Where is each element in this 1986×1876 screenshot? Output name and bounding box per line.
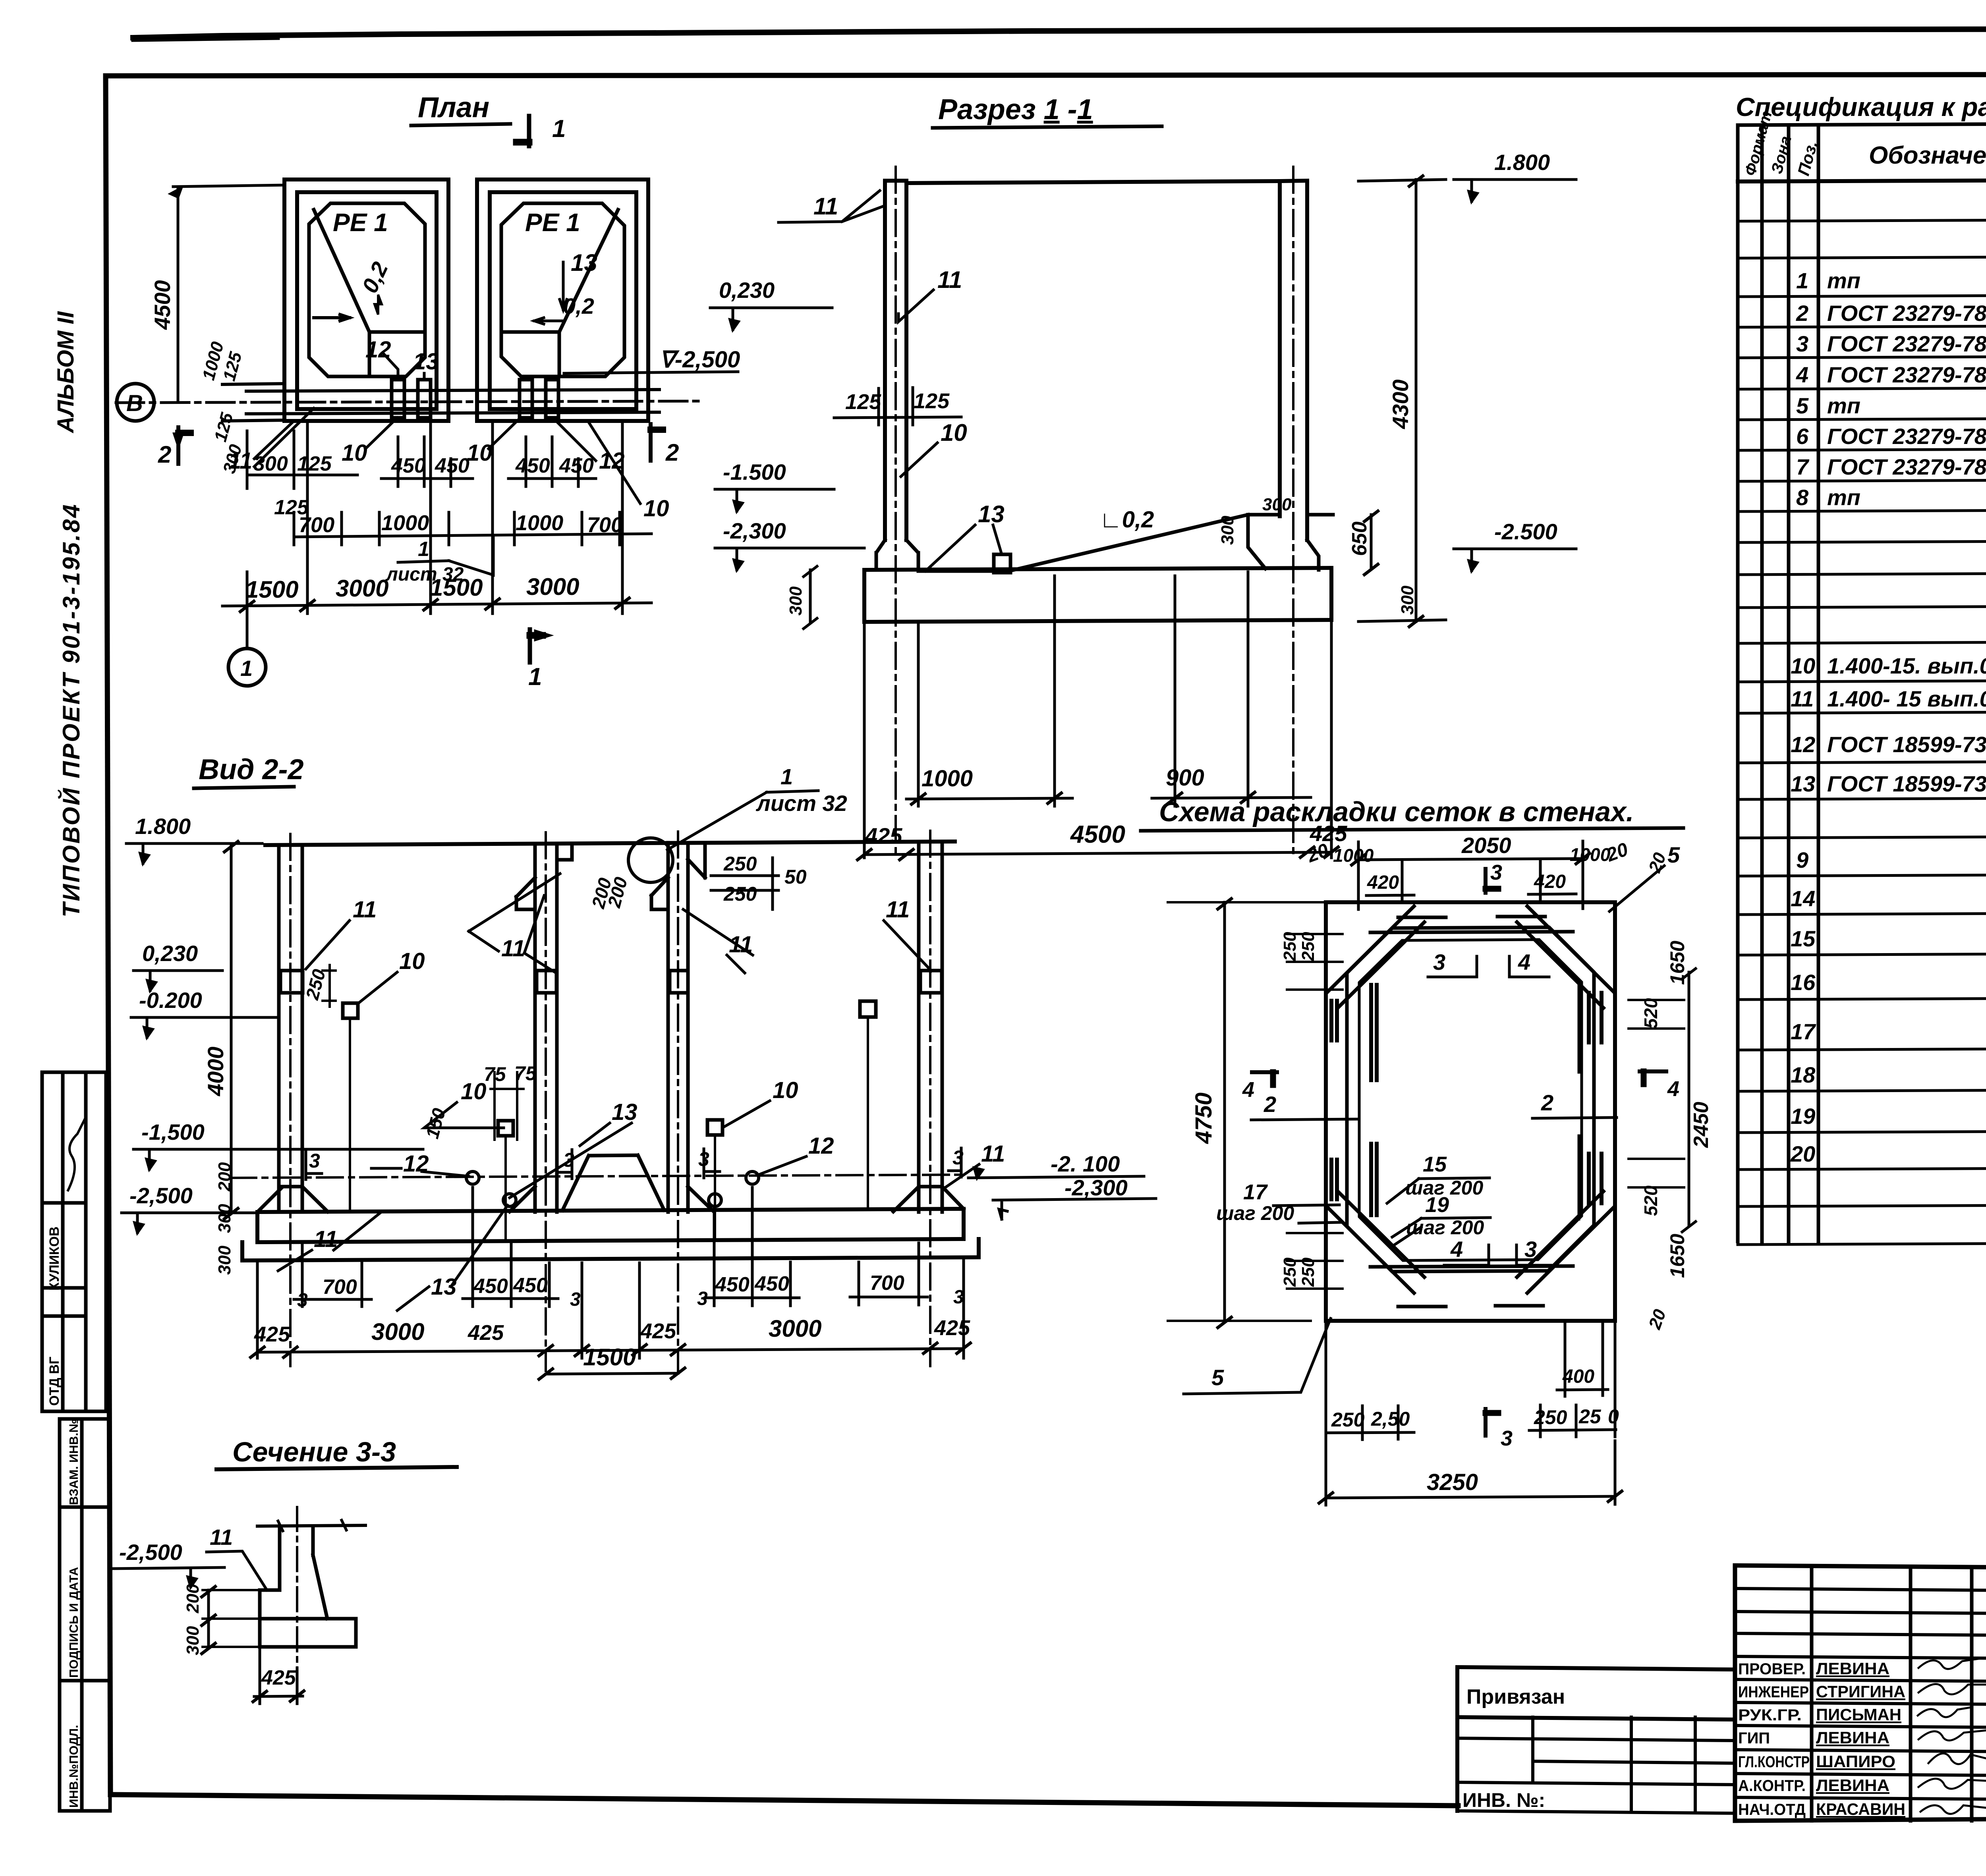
- svg-text:250: 250: [1298, 932, 1318, 961]
- mesh outer rect: [1326, 902, 1615, 1321]
- section 1-1 foundation slab: [864, 568, 1331, 622]
- svg-text:300: 300: [215, 1245, 234, 1275]
- svg-text:13: 13: [571, 249, 597, 276]
- svg-text:-2,500: -2,500: [119, 1540, 182, 1565]
- svg-text:1: 1: [528, 663, 542, 691]
- svg-text:450: 450: [715, 1273, 750, 1296]
- svg-text:10: 10: [467, 440, 493, 466]
- svg-text:425: 425: [640, 1319, 676, 1343]
- item 13 pipe in floor: [994, 554, 1010, 573]
- svg-text:13: 13: [1791, 771, 1815, 796]
- wall W4: [919, 841, 942, 1212]
- svg-text:ГЛ.КОНСТР: ГЛ.КОНСТР: [1738, 1753, 1810, 1771]
- dim 4750 left rotated: [1168, 899, 1323, 1328]
- svg-text:тп: тп: [1827, 485, 1860, 510]
- svg-text:ВЗАМ. ИНВ.№: ВЗАМ. ИНВ.№: [67, 1419, 81, 1505]
- svg-text:2,50: 2,50: [1371, 1408, 1410, 1430]
- svg-text:СТРИГИНА: СТРИГИНА: [1816, 1682, 1905, 1701]
- svg-text:3250: 3250: [1427, 1469, 1478, 1495]
- svg-text:450: 450: [515, 454, 550, 477]
- svg-text:2450: 2450: [1690, 1102, 1713, 1148]
- section mark 2 left: [175, 427, 191, 464]
- specification table group: [1736, 92, 1986, 1245]
- svg-text:700: 700: [587, 513, 623, 537]
- left margin stamp strip lower: [60, 1419, 110, 1811]
- svg-text:125: 125: [914, 389, 950, 413]
- wall W1 axis: [289, 834, 292, 1366]
- section 1-1 top interior line: [906, 181, 1280, 183]
- svg-text:ИНВ.№ПОДЛ.: ИНВ.№ПОДЛ.: [67, 1725, 81, 1808]
- svg-text:9: 9: [1796, 847, 1808, 872]
- svg-text:А.КОНТР.: А.КОНТР.: [1738, 1777, 1806, 1795]
- svg-text:Сечение 3-3: Сечение 3-3: [232, 1436, 396, 1467]
- tank PE1 left: sump rect: [369, 332, 425, 376]
- view 2-2 group: [122, 754, 1156, 1379]
- pipe circles items 12 13: [466, 1172, 759, 1206]
- plan dim row 700/1000/1000/700: [294, 512, 651, 545]
- wall axis: [296, 1507, 298, 1704]
- svg-text:Вид 2-2: Вид 2-2: [199, 754, 304, 786]
- svg-text:200: 200: [183, 1584, 203, 1614]
- dim 3250: [1319, 1441, 1622, 1505]
- title block outer: [1735, 1565, 1986, 1821]
- svg-text:18: 18: [1791, 1062, 1816, 1087]
- svg-text:Разрез 1 -1: Разрез 1 -1: [938, 94, 1093, 125]
- svg-text:4500: 4500: [150, 280, 175, 330]
- svg-text:13: 13: [978, 501, 1005, 527]
- svg-text:12: 12: [808, 1133, 834, 1159]
- svg-text:19: 19: [1791, 1104, 1815, 1129]
- svg-text:3: 3: [1490, 861, 1502, 884]
- dim row 700 450450: [294, 1187, 927, 1307]
- svg-text:17: 17: [1791, 1019, 1816, 1044]
- svg-text:4750: 4750: [1191, 1092, 1217, 1144]
- bottom wall band lines: [222, 384, 659, 421]
- dim 650 rotated: [1364, 511, 1378, 575]
- svg-text:Схема раскладки сеток в стенах: Схема раскладки сеток в стенах.: [1159, 796, 1634, 827]
- svg-text:ГИП: ГИП: [1738, 1729, 1770, 1747]
- mesh bottom bars: [1370, 1266, 1573, 1307]
- svg-text:25: 25: [1578, 1405, 1602, 1428]
- svg-text:125: 125: [845, 390, 881, 414]
- plan dim row 300/125: [247, 431, 357, 488]
- wall W4 axis: [929, 831, 931, 1366]
- mesh inner second line: [1359, 940, 1582, 1260]
- svg-text:420: 420: [1534, 871, 1566, 892]
- svg-text:11: 11: [210, 1525, 233, 1550]
- svg-text:2: 2: [1541, 1090, 1553, 1115]
- svg-text:250: 250: [1331, 1409, 1365, 1431]
- svg-text:РЕ 1: РЕ 1: [525, 208, 580, 237]
- svg-text:-1.500: -1.500: [723, 459, 786, 484]
- svg-text:План: План: [418, 92, 489, 124]
- title block vertical dividers left part: [1812, 1566, 1986, 1821]
- section mark 2 right: [651, 424, 663, 461]
- svg-text:425: 425: [934, 1316, 970, 1340]
- corner chamfer bars BL: [1327, 1191, 1424, 1293]
- svg-text:11: 11: [937, 266, 962, 293]
- svg-text:300: 300: [1398, 585, 1417, 615]
- svg-text:ЛЕВИНА: ЛЕВИНА: [1816, 1659, 1889, 1678]
- section mark 4 left: [1252, 1072, 1277, 1085]
- view 2-2 top edge: [265, 841, 955, 845]
- svg-text:НАЧ.ОТД: НАЧ.ОТД: [1738, 1801, 1806, 1818]
- foundation slab continuous: [242, 1209, 979, 1260]
- svg-text:300: 300: [253, 452, 288, 475]
- svg-text:19: 19: [1425, 1193, 1449, 1217]
- svg-text:1: 1: [780, 764, 793, 789]
- svg-text:10: 10: [399, 948, 425, 974]
- svg-text:4: 4: [1450, 1237, 1463, 1262]
- plan view group: [116, 92, 740, 691]
- svg-text:лист 32: лист 32: [755, 791, 847, 816]
- svg-text:1.400-15. вып.0: 1.400-15. вып.0: [1827, 653, 1986, 678]
- svg-text:ГОСТ 18599-73 *: ГОСТ 18599-73 *: [1827, 732, 1986, 757]
- hanger squares item 10 upper: [343, 1001, 876, 1018]
- svg-text:-2. 100: -2. 100: [1051, 1151, 1120, 1176]
- svg-text:10: 10: [941, 419, 967, 446]
- section 1-1 left wall axis: [894, 167, 897, 858]
- svg-text:14: 14: [1791, 886, 1815, 911]
- svg-text:2: 2: [1263, 1092, 1276, 1117]
- svg-text:1500: 1500: [583, 1344, 636, 1370]
- svg-text:4: 4: [1667, 1077, 1679, 1101]
- wall W2: [535, 843, 557, 1212]
- dim 4300 rotated: [1358, 176, 1446, 627]
- left margin stamp strip upper: [42, 1072, 106, 1411]
- section 1-1 interior floor with slope: [918, 515, 1280, 571]
- svg-text:1: 1: [240, 656, 253, 681]
- horizontal pipe dashdot: [230, 1175, 965, 1178]
- svg-text:4: 4: [1242, 1078, 1254, 1102]
- svg-text:520: 520: [1640, 1185, 1661, 1216]
- svg-text:1000: 1000: [922, 766, 973, 791]
- section 3-3 group: [112, 1436, 457, 1704]
- rotated stamp signature: [68, 1118, 85, 1191]
- dim 425 4500 425: [858, 621, 1338, 860]
- svg-text:∟0,2: ∟0,2: [1099, 507, 1154, 533]
- svg-text:-2,300: -2,300: [723, 518, 786, 543]
- wall cut top line: [257, 1525, 365, 1526]
- svg-text:1650: 1650: [1666, 1234, 1688, 1278]
- svg-text:125: 125: [297, 452, 332, 475]
- svg-text:15: 15: [1791, 926, 1816, 951]
- svg-text:250: 250: [1280, 932, 1300, 961]
- svg-text:1.800: 1.800: [1494, 150, 1550, 175]
- svg-text:8: 8: [1796, 485, 1809, 510]
- svg-text:ТИПОВОЙ ПРОЕКТ 901-3-195.84: ТИПОВОЙ ПРОЕКТ 901-3-195.84: [58, 503, 85, 917]
- mesh side bars left: [1331, 985, 1377, 1215]
- svg-text:450: 450: [473, 1275, 508, 1298]
- svg-text:3: 3: [1796, 331, 1808, 356]
- ledge plates 11 on walls: [280, 971, 942, 993]
- svg-text:10: 10: [461, 1079, 487, 1104]
- svg-text:-2.500: -2.500: [1494, 519, 1557, 544]
- svg-text:ГОСТ 23279-78: ГОСТ 23279-78: [1827, 424, 1986, 449]
- middle upstand trapezoid: [562, 1155, 664, 1210]
- hanger rods: [350, 1017, 868, 1241]
- svg-text:11: 11: [501, 936, 525, 961]
- svg-text:ГОСТ 23279-78: ГОСТ 23279-78: [1827, 301, 1986, 326]
- mid flare W3 right side: [688, 1187, 713, 1211]
- svg-text:450: 450: [559, 454, 594, 477]
- svg-text:3: 3: [570, 1289, 581, 1310]
- svg-text:425: 425: [261, 1666, 296, 1689]
- svg-text:450: 450: [513, 1274, 548, 1297]
- svg-text:1000: 1000: [381, 511, 429, 535]
- svg-text:-1,500: -1,500: [141, 1119, 205, 1145]
- svg-text:250: 250: [723, 883, 757, 905]
- svg-text:300: 300: [786, 586, 806, 616]
- spec table grid: [1738, 122, 1986, 1245]
- section cut mark 1 bottom: [530, 629, 547, 662]
- svg-text:300: 300: [183, 1626, 203, 1655]
- svg-text:3: 3: [1433, 950, 1445, 975]
- tank PE1 left: hopper diagonal: [314, 210, 369, 332]
- svg-text:ЛЕВИНА: ЛЕВИНА: [1816, 1776, 1889, 1795]
- svg-text:5: 5: [1211, 1365, 1224, 1390]
- detail circle 1 list 32: [628, 838, 673, 882]
- tank PE1 right: hopper diagonal: [559, 210, 618, 332]
- stamp signatures: [1918, 1654, 1986, 1814]
- svg-text:5: 5: [1796, 393, 1809, 418]
- mid flare W2 left side: [510, 1187, 535, 1212]
- svg-text:13: 13: [612, 1099, 638, 1125]
- svg-text:3: 3: [1501, 1426, 1513, 1450]
- svg-text:1500: 1500: [245, 576, 298, 603]
- tank PE1 right: chamfered inner opening: [501, 203, 624, 376]
- svg-text:12: 12: [1791, 732, 1815, 757]
- axis circle 1 bottom: [246, 616, 249, 648]
- section 1-1 left wall: [885, 181, 906, 540]
- svg-text:-0.200: -0.200: [139, 988, 202, 1013]
- svg-text:РЕ 1: РЕ 1: [333, 208, 388, 237]
- svg-text:ПИСЬМАН: ПИСЬМАН: [1816, 1705, 1901, 1724]
- svg-text:ГОСТ 18599-73 *: ГОСТ 18599-73 *: [1827, 771, 1986, 796]
- wall W1: [279, 845, 302, 1212]
- svg-text:ОТД ВГ: ОТД ВГ: [47, 1357, 62, 1406]
- svg-text:тп: тп: [1827, 268, 1860, 293]
- svg-text:700: 700: [870, 1272, 904, 1295]
- svg-text:15: 15: [1423, 1152, 1447, 1176]
- section 1-1 group: [710, 94, 1576, 860]
- svg-text:6: 6: [1796, 424, 1809, 449]
- svg-text:300: 300: [1218, 515, 1237, 545]
- section mark 3 top: [1486, 869, 1498, 893]
- svg-text:2: 2: [1796, 301, 1808, 326]
- wall W3 axis: [677, 832, 679, 1371]
- svg-text:4500: 4500: [1070, 821, 1125, 848]
- stamp labels column: [1738, 1660, 1810, 1818]
- svg-text:400: 400: [1562, 1366, 1594, 1387]
- plan title: [411, 92, 510, 125]
- spec table rows text: [1790, 230, 1986, 1241]
- svg-text:425: 425: [865, 823, 902, 848]
- svg-text:3: 3: [1524, 1237, 1537, 1262]
- svg-text:3000: 3000: [526, 573, 579, 600]
- svg-text:4300: 4300: [1388, 379, 1413, 429]
- svg-text:450: 450: [754, 1272, 789, 1295]
- svg-text:АЛЬБОМ II: АЛЬБОМ II: [53, 311, 79, 434]
- svg-text:11: 11: [813, 193, 838, 220]
- dim 4000 rotated: [224, 841, 238, 1219]
- svg-text:1000: 1000: [1333, 845, 1374, 866]
- svg-text:700: 700: [299, 513, 334, 537]
- mesh layout scheme group: [1141, 796, 1713, 1505]
- dim 2050 top: [1352, 841, 1590, 909]
- svg-text:450: 450: [391, 454, 426, 477]
- svg-text:17: 17: [1243, 1180, 1268, 1204]
- svg-text:900: 900: [1166, 765, 1204, 791]
- svg-text:3000: 3000: [371, 1318, 424, 1345]
- svg-text:2: 2: [665, 439, 679, 466]
- svg-text:3: 3: [309, 1150, 320, 1172]
- svg-text:11: 11: [981, 1141, 1005, 1167]
- svg-text:700: 700: [323, 1276, 357, 1299]
- tank PE1 right: outer wall: [477, 179, 648, 421]
- svg-text:-2,500: -2,500: [129, 1183, 193, 1208]
- level mark -2.500 at plan: [564, 347, 740, 373]
- svg-text:10: 10: [1791, 653, 1815, 678]
- svg-text:13: 13: [413, 349, 439, 374]
- svg-text:300: 300: [215, 1204, 234, 1233]
- top scan artifact line: [133, 29, 1986, 40]
- svg-text:11: 11: [886, 897, 910, 923]
- svg-text:ГОСТ 23279-78: ГОСТ 23279-78: [1827, 454, 1986, 479]
- svg-text:4: 4: [1518, 950, 1530, 975]
- svg-text:Привязан: Привязан: [1466, 1685, 1565, 1708]
- svg-text:250: 250: [1534, 1406, 1567, 1428]
- title block group: [1457, 1565, 1986, 1822]
- corner chamfer bars TR: [1517, 906, 1614, 1008]
- svg-text:4000: 4000: [203, 1046, 228, 1096]
- svg-text:10: 10: [773, 1077, 798, 1103]
- axis B dash-dot line: [116, 401, 699, 403]
- svg-text:250: 250: [723, 853, 757, 875]
- svg-text:420: 420: [1367, 872, 1399, 893]
- svg-text:425: 425: [468, 1321, 504, 1345]
- svg-text:2050: 2050: [1461, 833, 1511, 858]
- wall W3: [668, 843, 688, 1212]
- svg-text:1500: 1500: [430, 574, 483, 601]
- svg-text:4: 4: [1796, 362, 1808, 387]
- svg-text:16: 16: [1791, 970, 1816, 995]
- svg-text:3000: 3000: [769, 1315, 821, 1342]
- section 1-1 right wall axis: [1292, 167, 1294, 858]
- section cut mark 1 top: [516, 116, 529, 146]
- title block rows left part: [1735, 1588, 1986, 1799]
- footing block: [260, 1590, 356, 1647]
- svg-text:3000: 3000: [336, 575, 388, 602]
- hanger squares item 10 lower: [498, 1120, 723, 1136]
- plan main dim row 1500/3000/1500/3000: [222, 421, 651, 647]
- svg-text:11: 11: [1791, 686, 1814, 711]
- svg-text:ШАПИРО: ШАПИРО: [1816, 1752, 1895, 1771]
- corner chamfer bars TL: [1327, 906, 1424, 1008]
- section 1-1 right wall: [1280, 181, 1307, 540]
- svg-text:тп: тп: [1827, 393, 1860, 418]
- svg-text:0,230: 0,230: [719, 278, 775, 303]
- svg-text:13: 13: [431, 1274, 457, 1300]
- svg-text:1: 1: [418, 538, 429, 561]
- svg-text:ГОСТ 23279-78: ГОСТ 23279-78: [1827, 331, 1986, 356]
- tank PE1 left: outer wall: [284, 179, 448, 421]
- dim 1500: [539, 1368, 685, 1379]
- wall verticals: [280, 1526, 327, 1619]
- privyazan box: [1457, 1667, 1735, 1811]
- svg-text:РУК.ГР.: РУК.ГР.: [1738, 1706, 1802, 1724]
- svg-text:∇-2,500: ∇-2,500: [659, 347, 740, 372]
- stamp names column: [1816, 1659, 1905, 1818]
- svg-text:КУЛИКОВ: КУЛИКОВ: [47, 1227, 62, 1291]
- svg-text:10: 10: [342, 440, 367, 466]
- plan left dim 4500: [171, 185, 284, 401]
- svg-text:650: 650: [1348, 521, 1371, 556]
- mesh side bars right: [1579, 981, 1602, 1219]
- svg-text:300: 300: [1262, 495, 1292, 514]
- svg-text:0: 0: [1608, 1405, 1619, 1428]
- svg-text:ИНВ. №:: ИНВ. №:: [1462, 1789, 1545, 1811]
- svg-text:520: 520: [1640, 998, 1661, 1029]
- tank PE1 left: chamfered inner opening: [309, 203, 425, 376]
- right base block flare: [893, 1187, 964, 1212]
- svg-text:425: 425: [254, 1322, 290, 1346]
- tank PE1 right: sump rect: [501, 332, 559, 376]
- W2W3 top corbels: [516, 843, 705, 909]
- svg-text:1: 1: [552, 115, 566, 143]
- svg-text:В: В: [126, 390, 143, 416]
- mesh top bars: [1370, 917, 1573, 932]
- svg-text:0,230: 0,230: [142, 941, 198, 966]
- dim 1000 / 900: [906, 572, 1311, 806]
- svg-text:ПОДПИСЬ И ДАТА: ПОДПИСЬ И ДАТА: [67, 1567, 81, 1678]
- svg-text:1.400- 15 вып.0: 1.400- 15 вып.0: [1827, 686, 1986, 711]
- svg-text:1: 1: [1796, 268, 1808, 293]
- wall W2 axis: [545, 832, 547, 1371]
- section 1-1 left wall footing: [876, 540, 918, 570]
- pipe sleeves items 12,13 in plan: [392, 380, 558, 418]
- main dim row 425 3000 425 / 425 3000 425: [251, 1260, 970, 1358]
- svg-text:-2,300: -2,300: [1064, 1175, 1128, 1200]
- svg-text:ПРОВЕР.: ПРОВЕР.: [1738, 1660, 1806, 1678]
- svg-text:50: 50: [784, 866, 807, 888]
- mesh inner chamfered wall line: [1347, 927, 1594, 1272]
- svg-text:10: 10: [643, 496, 669, 521]
- svg-text:1000: 1000: [516, 511, 563, 535]
- svg-text:Обозначение: Обозначение: [1869, 142, 1986, 169]
- section mark 3 bottom: [1486, 1409, 1498, 1436]
- section mark 4 right: [1640, 1071, 1666, 1084]
- axis circle B: [117, 384, 154, 421]
- svg-text:КРАСАВИН: КРАСАВИН: [1816, 1800, 1905, 1818]
- svg-text:1.800: 1.800: [135, 814, 191, 839]
- left base block flare: [257, 1187, 328, 1212]
- privyazan grid: [1457, 1717, 1735, 1813]
- svg-text:20: 20: [1790, 1141, 1815, 1166]
- section 1-1 right footing upstand: [1307, 515, 1333, 570]
- svg-text:11: 11: [353, 897, 377, 923]
- tank PE1 left: flow arrow: [314, 315, 350, 321]
- svg-text:5: 5: [1667, 842, 1680, 867]
- svg-text:0,2: 0,2: [563, 293, 594, 318]
- svg-text:7: 7: [1796, 454, 1810, 479]
- svg-text:2: 2: [158, 441, 171, 468]
- svg-text:ГОСТ 23279-78: ГОСТ 23279-78: [1827, 362, 1986, 387]
- corner chamfer bars BR: [1517, 1191, 1614, 1293]
- svg-text:ЛЕВИНА: ЛЕВИНА: [1816, 1728, 1889, 1747]
- svg-text:ИНЖЕНЕР: ИНЖЕНЕР: [1738, 1683, 1809, 1701]
